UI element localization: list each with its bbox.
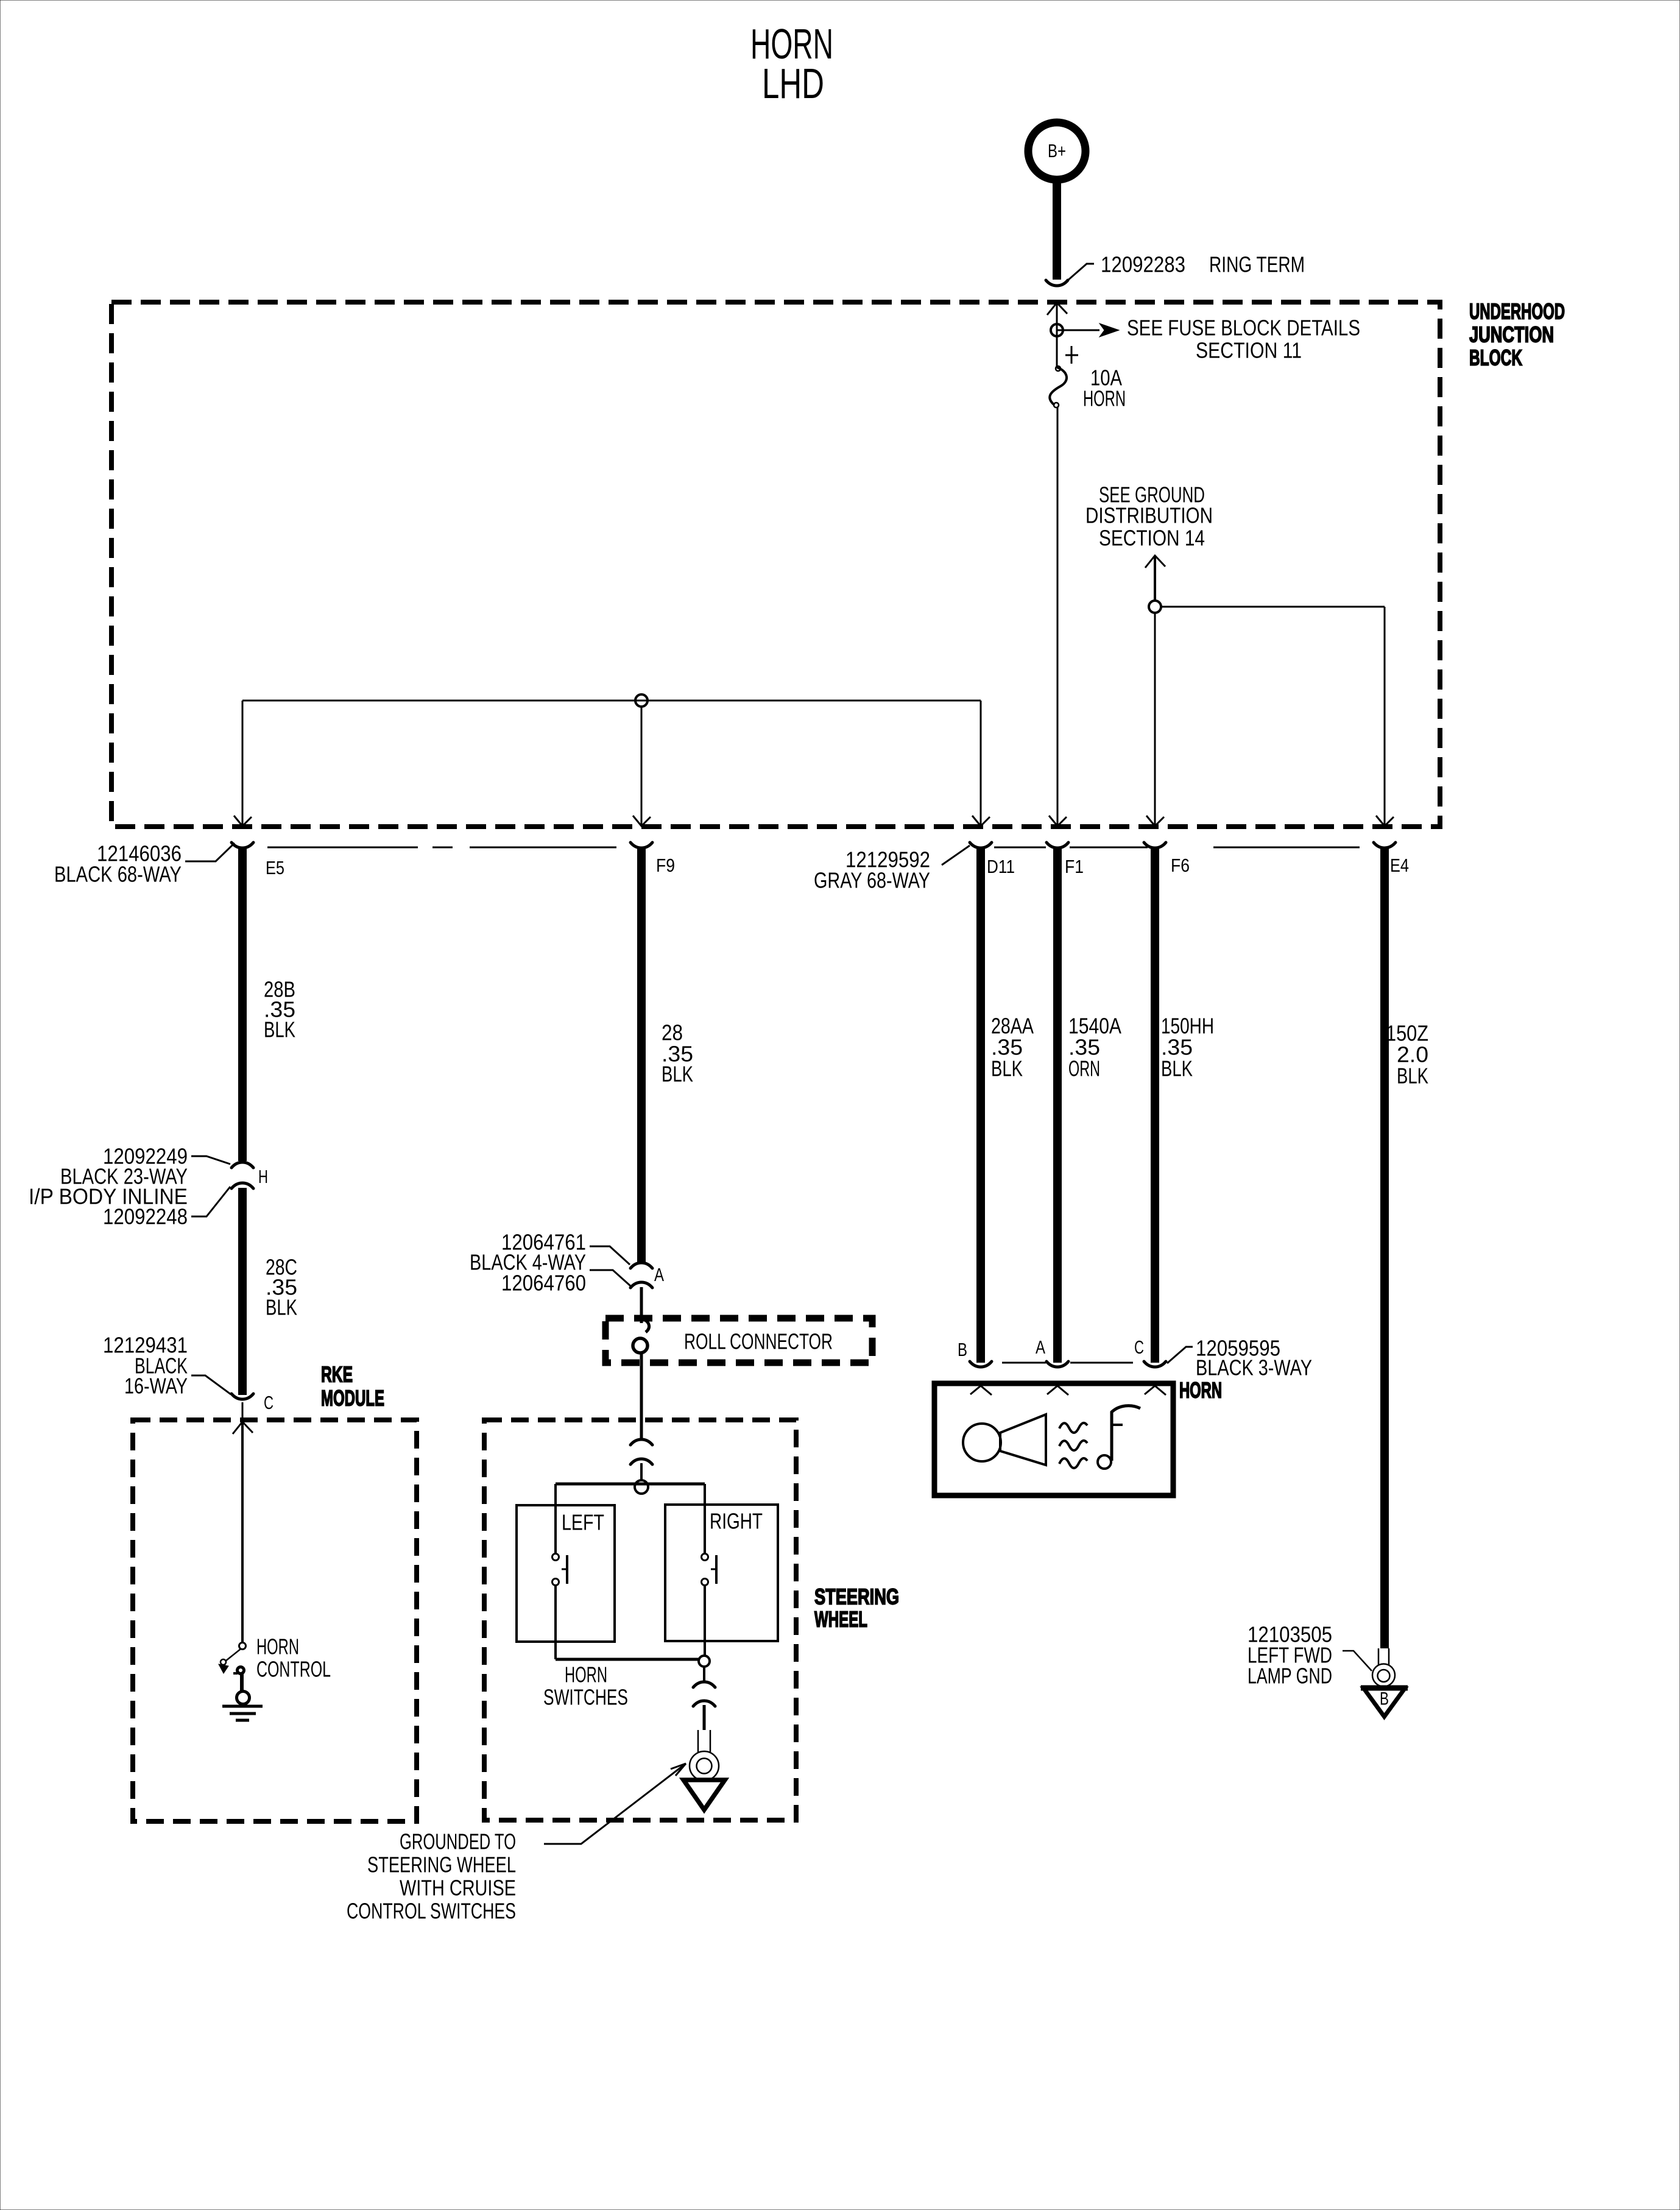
svg-text:12064760: 12064760: [501, 1271, 586, 1296]
svg-text:A: A: [1036, 1336, 1045, 1358]
wire bus to D11: [980, 701, 982, 825]
leader 12064761 to A upper: [590, 1246, 630, 1265]
RKE module box (dashed): [133, 1420, 417, 1821]
tie line B-A-C: [1002, 1362, 1046, 1364]
connector E4 arc: [1374, 842, 1396, 848]
svg-text:HORN: HORN: [565, 1662, 607, 1687]
leader 12146036 to E5: [185, 843, 235, 861]
inline connector H lower arc: [231, 1183, 253, 1188]
svg-text:HORN: HORN: [1083, 386, 1126, 411]
horn control switch: [239, 1643, 246, 1650]
svg-text:ROLL CONNECTOR: ROLL CONNECTOR: [684, 1329, 833, 1354]
svg-text:BLK: BLK: [662, 1062, 693, 1087]
svg-text:F6: F6: [1171, 855, 1190, 876]
tie line F6-E4: [1213, 847, 1360, 849]
svg-text:SEE FUSE BLOCK DETAILS: SEE FUSE BLOCK DETAILS: [1127, 316, 1360, 341]
svg-text:D11: D11: [987, 856, 1015, 877]
svg-text:B: B: [958, 1339, 967, 1360]
see-fuse-block reference arrow: [1057, 330, 1099, 331]
LEFT switch contacts: [552, 1554, 559, 1561]
RIGHT switch contacts: [702, 1554, 708, 1561]
wire junction to ground arcs: [703, 1667, 705, 1681]
connector C arc (RKE): [231, 1394, 253, 1399]
switch bus top: [556, 1483, 705, 1486]
steering wheel box (dashed): [484, 1420, 796, 1820]
ground symbol B (triangle): [1364, 1689, 1405, 1717]
steering ground triangle: [683, 1780, 725, 1810]
svg-text:MODULE: MODULE: [321, 1386, 384, 1411]
fuse 10A HORN symbol: [1050, 367, 1067, 405]
horn icon speaker circle: [963, 1424, 1001, 1461]
see-ground-distribution arrow: [1145, 556, 1165, 568]
svg-text:SWITCHES: SWITCHES: [543, 1685, 628, 1710]
svg-text:C: C: [264, 1392, 274, 1413]
ring terminal 12092283 connector arc: [1046, 280, 1068, 286]
horn icon music note: [1112, 1406, 1140, 1461]
roll connector coil: [641, 1318, 649, 1332]
ground node junction circle: [1149, 601, 1161, 613]
leader 12092249 to H upper: [191, 1156, 230, 1164]
switch bus junction circle: [635, 1480, 648, 1494]
wire roll connector to steering wheel: [640, 1354, 643, 1439]
wire 1540A (F1 to horn A): [1053, 847, 1062, 1363]
wire 150Z (E4 to ground): [1380, 847, 1389, 1648]
svg-text:STEERING: STEERING: [814, 1584, 899, 1609]
arrow into RKE at C: [233, 1422, 253, 1434]
arrow at F6 (inside block): [1146, 816, 1164, 826]
wire RIGHT switch down: [704, 1585, 706, 1655]
RIGHT switch box: [665, 1505, 778, 1641]
svg-text:CONTROL SWITCHES: CONTROL SWITCHES: [347, 1899, 516, 1924]
connector F6 arc: [1144, 842, 1166, 848]
wire C to horn control switch: [241, 1423, 244, 1643]
inline connector A lower arc: [630, 1282, 652, 1288]
switch bus bottom: [556, 1658, 699, 1661]
svg-text:F1: F1: [1065, 856, 1084, 877]
wire LEFT switch down: [554, 1585, 557, 1659]
horn icon sound wave 3: [1059, 1458, 1087, 1468]
connector A arc (horn): [1046, 1361, 1068, 1367]
svg-text:BLK: BLK: [991, 1056, 1023, 1081]
svg-text:12092283: 12092283: [1101, 252, 1185, 277]
steering wheel entry upper arc: [630, 1439, 652, 1445]
svg-text:HORN: HORN: [256, 1634, 299, 1659]
inline connector H upper arc: [231, 1162, 253, 1168]
arrow at E4 (inside block): [1376, 816, 1394, 826]
wire to RIGHT switch: [704, 1484, 706, 1554]
wire ground node to F6: [1154, 613, 1156, 825]
arrow at D11 (inside block): [972, 816, 990, 826]
ring terminal 12103505: [1378, 1648, 1389, 1665]
wire down to E4: [1384, 607, 1386, 825]
wire fuse to F1: [1057, 407, 1059, 825]
svg-text:BLK: BLK: [1397, 1064, 1428, 1089]
wire C to RKE box: [242, 1402, 244, 1421]
svg-text:HORN: HORN: [1179, 1378, 1222, 1403]
steering ground upper arc: [693, 1682, 715, 1687]
horn pin arrow A: [1047, 1386, 1068, 1395]
horn icon sound wave 1: [1059, 1423, 1087, 1433]
svg-text:F9: F9: [656, 855, 675, 876]
wire 150HH (F6 to horn C): [1151, 847, 1159, 1363]
svg-text:RING TERM: RING TERM: [1209, 252, 1305, 277]
svg-text:12092248: 12092248: [103, 1204, 188, 1229]
leader 12059595 to C: [1167, 1347, 1193, 1363]
inline connector A upper arc: [630, 1263, 652, 1268]
svg-text:WITH CRUISE: WITH CRUISE: [400, 1876, 516, 1901]
svg-text:BLK: BLK: [266, 1295, 297, 1320]
svg-text:E5: E5: [266, 857, 284, 878]
svg-text:BLACK 3-WAY: BLACK 3-WAY: [1196, 1355, 1312, 1380]
svg-text:JUNCTION: JUNCTION: [1469, 322, 1554, 347]
bottom bus junction circle: [699, 1656, 710, 1667]
B+ terminal circle: [1028, 122, 1085, 180]
svg-text:LEFT: LEFT: [562, 1510, 604, 1535]
wire to LEFT switch: [554, 1484, 557, 1554]
wire 28 (F9 to A): [637, 847, 646, 1262]
tie line E5-F9: [267, 847, 418, 849]
wire A to roll connector: [640, 1287, 643, 1323]
fuse node junction circle: [1051, 324, 1063, 336]
svg-text:GROUNDED TO: GROUNDED TO: [400, 1829, 516, 1854]
wire 28B (E5 to H): [238, 847, 247, 1161]
wire 28C (H to C): [238, 1188, 247, 1395]
connector D11 arc: [970, 842, 992, 848]
arrow at E5 (inside block): [234, 816, 252, 826]
steering wheel ring terminal: [698, 1730, 710, 1752]
svg-text:H: H: [258, 1166, 268, 1187]
svg-text:RKE: RKE: [321, 1362, 353, 1387]
arrow into junction block at B+ entry: [1047, 303, 1067, 315]
svg-text:RIGHT: RIGHT: [710, 1509, 763, 1534]
connector C arc (horn): [1144, 1361, 1166, 1367]
steering ground lower arc: [693, 1701, 715, 1706]
wire ground node to E4 drop: [1161, 606, 1385, 608]
plus symbol at fuse: [1071, 346, 1073, 364]
svg-text:16-WAY: 16-WAY: [124, 1374, 188, 1399]
svg-text:C: C: [1134, 1336, 1144, 1358]
connector B arc (horn): [970, 1361, 992, 1367]
leader 12103505: [1343, 1651, 1372, 1671]
leader 12129431 to C: [191, 1375, 231, 1394]
leader 12129592 to D11: [942, 846, 970, 865]
svg-text:BLACK 68-WAY: BLACK 68-WAY: [54, 862, 182, 887]
horn pin arrow C: [1145, 1386, 1166, 1395]
underhood junction block (dashed box): [111, 302, 1440, 827]
svg-text:GRAY 68-WAY: GRAY 68-WAY: [814, 868, 930, 893]
tie line D11-F6: [994, 847, 1046, 849]
svg-text:ORN: ORN: [1068, 1056, 1100, 1081]
svg-text:DISTRIBUTION: DISTRIBUTION: [1085, 503, 1213, 528]
svg-text:BLOCK: BLOCK: [1469, 345, 1522, 370]
connector F1 arc: [1046, 842, 1068, 848]
roll connector box (dashed): [605, 1318, 872, 1363]
arrow at F1 (inside block): [1049, 816, 1067, 826]
connector F9 arc: [630, 842, 652, 848]
leader 12064760 to A lower: [590, 1270, 630, 1286]
svg-text:SECTION 14: SECTION 14: [1099, 526, 1205, 551]
leader to 12092283 label: [1067, 264, 1094, 281]
connector E5 arc: [231, 842, 253, 848]
wire 28AA (D11 to horn B): [976, 847, 985, 1363]
bus junction circle at F9: [635, 694, 648, 707]
svg-text:LHD: LHD: [762, 60, 824, 107]
wire entry to switch bus: [640, 1463, 643, 1481]
LEFT switch box: [517, 1505, 615, 1642]
arrow at F9 (inside block): [633, 816, 651, 826]
wire arrow to fuse node: [1056, 304, 1058, 367]
leader 12092248 to H lower: [191, 1187, 230, 1216]
horn box: [934, 1383, 1173, 1495]
svg-text:SECTION 11: SECTION 11: [1196, 338, 1302, 363]
wire B+ to ring terminal (thick): [1053, 183, 1061, 280]
horn pin arrow B: [970, 1386, 992, 1395]
svg-text:BLK: BLK: [1161, 1056, 1193, 1081]
bus wire E5-D11: [242, 700, 981, 702]
svg-text:BLK: BLK: [264, 1017, 295, 1042]
wire arcs to ring terminal: [703, 1705, 706, 1730]
RKE internal ground symbol: [237, 1692, 250, 1704]
horn icon sound wave 2: [1059, 1441, 1087, 1450]
svg-text:A: A: [654, 1264, 664, 1285]
grounded-to arrow: [544, 1763, 686, 1844]
steering wheel entry lower arc: [630, 1459, 652, 1464]
svg-text:LAMP GND: LAMP GND: [1248, 1664, 1332, 1689]
svg-text:UNDERHOOD: UNDERHOOD: [1469, 299, 1565, 324]
wire bus to E5: [242, 701, 244, 825]
wire bus to F9: [641, 707, 643, 825]
svg-text:STEERING WHEEL: STEERING WHEEL: [367, 1852, 516, 1877]
svg-text:B+: B+: [1048, 140, 1066, 161]
svg-text:B: B: [1380, 1689, 1389, 1709]
svg-text:E4: E4: [1390, 855, 1409, 876]
horn icon trumpet: [1000, 1414, 1046, 1465]
svg-text:CONTROL: CONTROL: [256, 1657, 331, 1682]
svg-text:WHEEL: WHEEL: [814, 1607, 867, 1632]
